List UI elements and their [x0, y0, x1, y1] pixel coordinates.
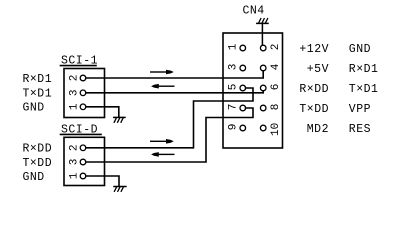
connector CN4 body [223, 33, 283, 148]
connector SCI-D label [61, 123, 98, 136]
SCI-1 pin 1 circle [80, 104, 86, 110]
connector SCI-1 label underline [61, 65, 97, 67]
SCI-1 pin 2 number [68, 75, 80, 82]
svg-text:RES: RES [349, 123, 371, 136]
svg-text:VPP: VPP [349, 103, 371, 116]
CN4 pin 9 circle [240, 125, 246, 131]
connector CN4 label [243, 5, 265, 18]
wire TxD1: SCI-1 pin3 to CN4 pin6 [86, 91, 263, 93]
chassis ground at CN4 pin 2 [257, 19, 268, 46]
connector SCI-1 label [61, 55, 98, 68]
SCI-D pin 3 circle [80, 159, 86, 165]
arrow right on RxD1 wire [150, 70, 174, 75]
svg-text:+5V: +5V [307, 63, 329, 76]
CN4 pin 10 number [270, 123, 282, 136]
CN4 pin 3 circle [240, 65, 246, 71]
SCI-1 pin 3 number [68, 89, 80, 96]
arrow right on RxDD wire [150, 139, 174, 144]
svg-text:9: 9 [228, 124, 240, 131]
svg-text:1: 1 [68, 172, 80, 179]
CN4 pin 10 circle [260, 125, 266, 131]
svg-text:+12V: +12V [299, 43, 329, 56]
CN4 right-side signal names column 2 [349, 43, 379, 136]
svg-text:GND: GND [349, 43, 371, 56]
chassis ground below SCI-D [114, 187, 126, 192]
CN4 pin 4 number [270, 63, 282, 70]
arrow left on TxD1 wire [151, 84, 174, 89]
CN4 pin 7 circle [240, 105, 246, 111]
SCI-D pin 2 circle [80, 145, 86, 151]
svg-text:3: 3 [228, 64, 240, 71]
svg-text:T×DD: T×DD [23, 157, 53, 170]
CN4 pin 5 circle [240, 85, 246, 91]
signal label RxD1 (SCI-1) [23, 73, 53, 86]
CN4 pin 1 number [228, 43, 240, 50]
CN4 pin 8 number [270, 104, 282, 111]
SCI-D pin 3 number [68, 159, 80, 166]
connector SCI-1 body [64, 69, 105, 118]
svg-text:R×D1: R×D1 [349, 63, 379, 76]
svg-text:2: 2 [68, 75, 80, 82]
svg-text:5: 5 [228, 84, 240, 91]
SCI-1 pin 3 circle [80, 90, 86, 96]
svg-text:R×DD: R×DD [23, 143, 53, 156]
CN4 pin 6 number [270, 84, 282, 91]
svg-text:1: 1 [68, 103, 80, 110]
CN4 pin 8 circle [260, 105, 266, 111]
CN4 pin 2 circle [260, 45, 266, 51]
svg-text:MD2: MD2 [307, 123, 329, 136]
svg-text:10: 10 [270, 123, 282, 136]
wire RxD1: SCI-1 pin2 to CN4 pin4 [86, 71, 263, 78]
CN4 pin 4 circle [260, 65, 266, 71]
SCI-D pin 1 circle [80, 173, 86, 179]
CN4 pin 2 number [270, 44, 282, 51]
wire TxDD: SCI-D pin3 to CN4 pin7 [86, 108, 253, 162]
signal label TxDD (SCI-D) [23, 157, 53, 170]
SCI-1 pin 1 number [68, 103, 80, 110]
svg-text:7: 7 [228, 104, 240, 111]
svg-text:8: 8 [270, 104, 282, 111]
connector SCI-D label underline [61, 133, 102, 135]
signal label RxDD (SCI-D) [23, 143, 53, 156]
svg-text:GND: GND [23, 102, 45, 115]
CN4 pin 7 number [228, 104, 240, 111]
CN4 pin 9 number [228, 124, 240, 131]
svg-text:T×D1: T×D1 [349, 83, 379, 96]
svg-text:2: 2 [68, 144, 80, 151]
svg-text:1: 1 [228, 43, 240, 50]
svg-text:GND: GND [23, 171, 45, 184]
connector SCI-D body [64, 137, 105, 185]
svg-text:T×D1: T×D1 [23, 87, 53, 100]
wire RxDD: SCI-D pin2 to CN4 pin5 [86, 88, 253, 148]
svg-text:CN4: CN4 [243, 5, 265, 18]
svg-text:3: 3 [68, 159, 80, 166]
wire GND from SCI-1 pin1 [86, 107, 119, 117]
SCI-D pin 2 number [68, 144, 80, 151]
CN4 pin 1 circle [240, 45, 246, 51]
signal label GND (SCI-1) [23, 102, 45, 115]
CN4 pin 3 number [228, 64, 240, 71]
svg-text:4: 4 [270, 63, 282, 70]
chassis ground below SCI-1 [114, 117, 125, 122]
SCI-D pin 1 number [68, 172, 80, 179]
CN4 right-side signal names column 1 [299, 43, 329, 136]
svg-text:3: 3 [68, 89, 80, 96]
wire GND from SCI-D pin1 [86, 176, 119, 186]
svg-text:R×DD: R×DD [299, 83, 329, 96]
SCI-1 pin 2 circle [80, 75, 86, 81]
CN4 pin 6 circle [260, 85, 266, 91]
signal label GND (SCI-D) [23, 171, 45, 184]
svg-text:T×DD: T×DD [299, 103, 329, 116]
svg-text:R×D1: R×D1 [23, 73, 53, 86]
signal label TxD1 (SCI-1) [23, 87, 53, 100]
CN4 pin 5 number [228, 84, 240, 91]
arrow left on TxDD wire [151, 152, 174, 157]
svg-text:6: 6 [270, 84, 282, 91]
svg-text:2: 2 [270, 44, 282, 51]
